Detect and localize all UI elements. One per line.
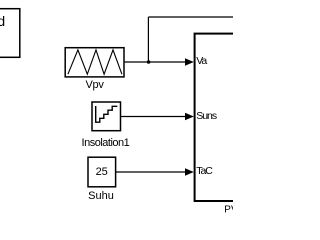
svg-text:Suhu: Suhu	[88, 190, 114, 202]
svg-text:d: d	[0, 13, 5, 29]
svg-text:Va: Va	[196, 55, 207, 67]
svg-text:TaC: TaC	[196, 165, 213, 177]
svg-text:25: 25	[96, 166, 108, 178]
svg-text:Insolation1: Insolation1	[82, 137, 130, 149]
svg-text:PV: PV	[224, 205, 233, 216]
svg-text:Vpv: Vpv	[85, 79, 104, 91]
svg-text:Suns: Suns	[196, 110, 217, 122]
